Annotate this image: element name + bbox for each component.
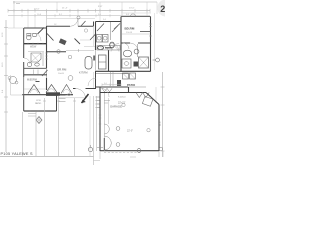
svg-text:22'-0": 22'-0": [127, 130, 133, 133]
svg-text:COV.: COV.: [36, 100, 42, 102]
bath1b sink: [35, 63, 40, 66]
eave line right wing: [121, 13, 155, 70]
wall: garage bottom y151: [100, 150, 159, 152]
washer box: [97, 35, 103, 43]
porch room: bottom wall: [24, 110, 57, 112]
kitchen sink dark: [98, 46, 104, 50]
left dimension ticks: [4, 28, 8, 113]
svg-text:WDW: WDW: [30, 46, 37, 49]
walkway edge y87 right part: [128, 86, 146, 88]
svg-text:PATIO: PATIO: [35, 102, 42, 105]
svg-text:GARAGE: GARAGE: [110, 105, 122, 109]
left extension line upper: [13, 3, 15, 28]
W/D boxes below bath2: [123, 73, 129, 79]
extension line x147: [146, 2, 148, 16]
cabinet strip on wall: [93, 56, 95, 61]
laundry diagonal right: [114, 24, 120, 30]
bottom horizontal line: [0, 156, 94, 158]
bottom right extension: [159, 151, 163, 157]
wall: patio bottom y87: [96, 86, 128, 88]
small circle symbol right of garage label: [122, 103, 125, 106]
dark mark master label: [36, 81, 40, 83]
divider bath2: [137, 44, 139, 57]
svg-text:24'-0": 24'-0": [34, 9, 40, 11]
door diagonal near jog: [81, 21, 86, 26]
door arc entry: [76, 89, 86, 99]
right extension line x157: [156, 2, 158, 14]
wall: mid top y26: [47, 25, 94, 27]
door bulge arc 2: [104, 136, 111, 150]
window ticks west wall: [45, 53, 48, 59]
counter band hatched: [97, 46, 120, 51]
walk tick circle: [68, 93, 71, 96]
svg-text:PATIO: PATIO: [127, 83, 136, 87]
window ticks bath1: [28, 43, 43, 45]
top dimension line row B segments: [8, 15, 150, 17]
door arc hall to patio: [88, 78, 96, 86]
diagonal mark kitchen: [75, 39, 81, 45]
bottom dim line right: [94, 160, 101, 162]
kitchen west light line lower: [95, 50, 97, 71]
post walkway x128: [128, 87, 130, 93]
extension line x78: [77, 11, 79, 17]
svg-text:13'-0": 13'-0": [129, 8, 135, 10]
tick on garage west wall: [97, 147, 103, 149]
laundry diagonal mid: [112, 26, 118, 33]
entry arrow: [82, 94, 89, 103]
extension line x46.5 upper: [46, 11, 48, 26]
bay base wall right: [60, 94, 73, 96]
porch left edge line: [11, 75, 24, 95]
wall jog x93.5: [93, 22, 95, 27]
closet line bedroom2: [122, 33, 150, 35]
tick top-left: [14, 1, 20, 4]
laundry mid divider: [110, 22, 112, 40]
steps marks left of garage: [96, 97, 100, 108]
knob circle 2: [116, 143, 120, 147]
wall: bedroom2 west x121: [120, 17, 122, 72]
bath2 shower with X: [139, 57, 149, 68]
svg-text:BD.RM: BD.RM: [125, 27, 135, 31]
fan circle great room: [68, 76, 73, 81]
bay peak 2: [46, 85, 57, 93]
small circle dining: [68, 55, 72, 59]
wall: bath1b bottom y68: [24, 67, 47, 69]
svg-text:16x20: 16x20: [58, 73, 65, 75]
top dimension line row A: [8, 10, 150, 12]
circle symbol right of garage corner: [159, 147, 163, 151]
closet marks hallway: [34, 70, 39, 75]
bath1b shower: [31, 53, 41, 62]
extension x93.5 lower: [93, 72, 95, 88]
porch room: right wall: [56, 95, 58, 111]
powder toilet: [110, 42, 115, 48]
walk edge line y97.8: [58, 97, 84, 99]
small circle great room: [84, 29, 87, 32]
hose bib circle right near garage bottom: [137, 149, 141, 153]
garage eave extension x96.5: [96, 96, 98, 151]
hose bib circle left of garage: [88, 147, 92, 151]
wall: kitchen/hall west x95.5 upper: [95, 22, 97, 51]
eave extension right of patio: [155, 87, 157, 103]
wall: central vertical x46.5: [46, 26, 48, 90]
tick on kitchen divider: [78, 49, 80, 52]
hall south line y73.5: [96, 73, 128, 75]
garage interior vertical: [108, 98, 110, 124]
driveway edge lines: [23, 96, 75, 156]
tilted square symbol near garage corner: [142, 96, 153, 106]
dryer box: [103, 35, 109, 43]
dim ticks above garage: [102, 83, 121, 86]
bay peak 1: [28, 85, 40, 94]
shrub diamond: [36, 117, 42, 124]
svg-text:21-6: 21-6: [160, 121, 162, 126]
step lines below porch: [28, 114, 36, 117]
svg-text:16-0: 16-0: [2, 62, 4, 67]
bath2 vanity: [122, 59, 131, 68]
extension line x122: [121, 2, 123, 16]
closet shelf bedroom2: [140, 31, 151, 33]
eave line top middle: [47, 17, 95, 19]
wall: house left lower: [23, 77, 25, 95]
window bump bedroom2 top: [130, 14, 136, 17]
right vertical dimension line: [162, 72, 164, 157]
column block hall: [117, 80, 121, 86]
garage inner wall line: [103, 93, 105, 151]
wall: hall top y21.5: [96, 21, 122, 23]
svg-text:9'-8": 9'-8": [98, 6, 103, 8]
door arcs bedroom2: [123, 43, 138, 51]
svg-text:GR.RM: GR.RM: [57, 68, 67, 72]
fireplace tilted rect: [59, 38, 67, 45]
cabinet front line: [96, 49, 120, 51]
patio table symbol left: [9, 76, 16, 83]
wall: bedroom2 top y16.5: [121, 16, 151, 18]
extension line x28: [27, 12, 29, 28]
fridge divider: [99, 61, 107, 63]
hose bib circle right: [156, 58, 160, 62]
hall light lines: [80, 40, 95, 47]
tick marks driveway: [43, 100, 76, 102]
extension line x100: [99, 2, 101, 21]
wall: garage east x159: [158, 105, 160, 152]
sheet top border line: [13, 1, 157, 3]
wall: patio west x95.5: [95, 71, 97, 88]
svg-text:21'-4": 21'-4": [62, 8, 68, 10]
bath2 dark square: [134, 62, 139, 67]
fridge box kitchen: [99, 55, 107, 69]
dining door diagonal: [47, 34, 54, 41]
window ticks porch bottom: [30, 110, 46, 112]
extension line x35: [34, 14, 36, 28]
wall: house left: [23, 28, 25, 77]
door arc patio: [100, 88, 109, 97]
bay base wall left: [22, 94, 46, 96]
dashed hidden line below garage: [104, 152, 142, 154]
window dashes garage west wall: [99, 115, 101, 124]
laundry diagonal left: [97, 24, 104, 32]
wall: garage NE diagonal: [146, 93, 159, 105]
extension line x57: [56, 2, 58, 11]
dimension ticks row A: [8, 9, 150, 13]
closet line left wing: [42, 52, 44, 66]
door arc mid top: [70, 18, 78, 26]
dimension ticks row B: [22, 14, 135, 17]
dim line above garage: [102, 84, 121, 86]
svg-text:9-0x8-0: 9-0x8-0: [118, 97, 126, 99]
bath1 door diagonal: [38, 28, 45, 35]
bath1 sink: [32, 33, 37, 36]
wall: kitchen east x108.5: [108, 50, 110, 71]
extension x93.5 hall: [93, 26, 95, 46]
knob circle 1: [116, 127, 120, 131]
hall verticals below bath: [111, 72, 114, 87]
bath1 toilet: [27, 35, 32, 40]
window zigzag walkway: [102, 88, 112, 92]
bay peak 3: [61, 85, 72, 94]
bath1 counter edge: [26, 32, 37, 34]
wall: east x150.5 upper: [150, 17, 152, 72]
svg-text:12x13: 12x13: [126, 32, 133, 34]
window band master: [24, 88, 46, 90]
symbol circle right of dim text: [147, 129, 150, 132]
svg-text:2: 2: [160, 4, 165, 14]
wall: garage west x100: [99, 87, 101, 151]
badge circle top right: [157, 0, 174, 17]
range circle on kitchen wall: [57, 50, 61, 54]
symbol circle on wall: [77, 16, 80, 19]
wall: bath2 bottom y71: [96, 70, 151, 72]
garage interior dashes top-left: [104, 101, 110, 104]
bath2 toilet: [134, 49, 139, 54]
wall: bath1 top: [24, 27, 47, 29]
door swing master: [42, 70, 48, 76]
wall: bedroom2 bottom y43: [121, 42, 151, 44]
svg-text:KIT.RM: KIT.RM: [79, 71, 88, 75]
porch room: left wall: [23, 95, 25, 111]
window: west great room: [46, 68, 48, 78]
door bulge arc 1: [104, 124, 109, 134]
door jamb dark: [103, 138, 105, 150]
bath1b toilet: [27, 62, 31, 66]
svg-text:P105 YALEWE S: P105 YALEWE S: [1, 152, 33, 156]
wall: master top y74.8: [24, 74, 47, 76]
entry steps small: [59, 96, 66, 102]
bottom dim tick group: [100, 151, 136, 159]
window zigzag garage top right: [136, 93, 149, 98]
shower top line: [28, 51, 44, 53]
kitchen divider light line: [66, 50, 94, 52]
garage west extension: [93, 96, 95, 165]
hall door diagonal: [90, 34, 96, 41]
bay dark base block: [46, 92, 60, 96]
pantry oblong 1: [85, 57, 92, 70]
bath2 tub oval: [123, 50, 131, 57]
laundry dark mark: [105, 47, 112, 49]
left vertical dimension line: [5, 20, 7, 152]
porch edge line top-left: [8, 27, 24, 29]
window marks east wall: [149, 24, 152, 36]
hall door arcs: [111, 44, 119, 52]
right dimension ticks: [161, 87, 165, 151]
svg-text:M.BDRM: M.BDRM: [27, 79, 37, 82]
interior door gap arc left wall: [24, 58, 30, 64]
wall: garage top y92.5: [100, 92, 146, 94]
wall: entry bottom y88.5: [73, 88, 96, 90]
walk extension x90: [89, 96, 91, 156]
wall: kitchen south y51.5: [47, 51, 66, 53]
wall: bath1 bottom window: [24, 43, 47, 45]
svg-text:12-6: 12-6: [2, 32, 4, 37]
